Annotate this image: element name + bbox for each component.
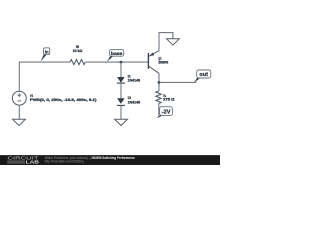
ground top right [167, 39, 180, 45]
wire D1 to D2 [120, 83, 122, 98]
svg-text:out: out [199, 72, 208, 78]
wire RL to -2V flag [158, 104, 160, 118]
transistor Q1 emitter arrow [150, 52, 155, 56]
CircuitLab logo [7, 156, 39, 165]
footer credit text [45, 156, 136, 163]
label RB [73, 45, 83, 53]
svg-text:PWS(0, 0, 200n, -10.9, 400n, 9: PWS(0, 0, 200n, -10.9, 400n, 9.1) [30, 98, 98, 102]
ground under D2 [115, 119, 128, 125]
voltage source V1 [12, 91, 26, 105]
svg-text:LAB: LAB [26, 160, 39, 165]
svg-text:1N4148: 1N4148 [128, 79, 141, 83]
collector wire down [158, 73, 160, 91]
wire V1 to ground [18, 105, 20, 119]
transistor Q1 collector [149, 66, 159, 73]
node out junction dot [158, 81, 161, 84]
diode D2 [117, 98, 125, 105]
footer bar [0, 155, 220, 165]
wire RB to Q1 base [85, 61, 148, 63]
label Q1 [158, 57, 168, 65]
svg-text:in: in [45, 49, 49, 54]
diode D1 [117, 77, 125, 83]
emitter wire to top ground [159, 33, 173, 51]
resistor RB [70, 60, 85, 65]
label V1 [30, 94, 98, 102]
label D2 [128, 96, 141, 105]
svg-text:D2: D2 [128, 96, 131, 100]
wire D2 to ground [120, 105, 122, 119]
svg-text:1N4148: 1N4148 [128, 101, 141, 105]
flag -2V supply [156, 107, 172, 119]
flag in [41, 48, 50, 62]
ground under V1 [13, 119, 26, 125]
node base junction dot [120, 61, 123, 64]
svg-text:2N3906 Switching Performance: 2N3906 Switching Performance [91, 156, 135, 160]
svg-text:2N3906: 2N3906 [158, 61, 168, 65]
label D1 [128, 74, 141, 82]
transistor Q1 emitter [149, 51, 159, 57]
flag out [194, 70, 211, 83]
transistor Q1 base bar [147, 53, 149, 69]
svg-text:http://circuitlab.com/c6bt3kq: http://circuitlab.com/c6bt3kq [45, 159, 84, 163]
svg-text:base: base [111, 51, 123, 57]
resistor RL [156, 91, 161, 104]
flag base [107, 49, 124, 61]
wire to out flag [159, 81, 197, 83]
wire V1 to top rail [19, 62, 70, 91]
svg-text:10 kΩ: 10 kΩ [73, 49, 83, 53]
svg-text:-2V: -2V [162, 109, 171, 115]
label RL [163, 94, 174, 102]
svg-text:275 Ω: 275 Ω [163, 98, 174, 102]
wire base to D1 [120, 62, 122, 77]
